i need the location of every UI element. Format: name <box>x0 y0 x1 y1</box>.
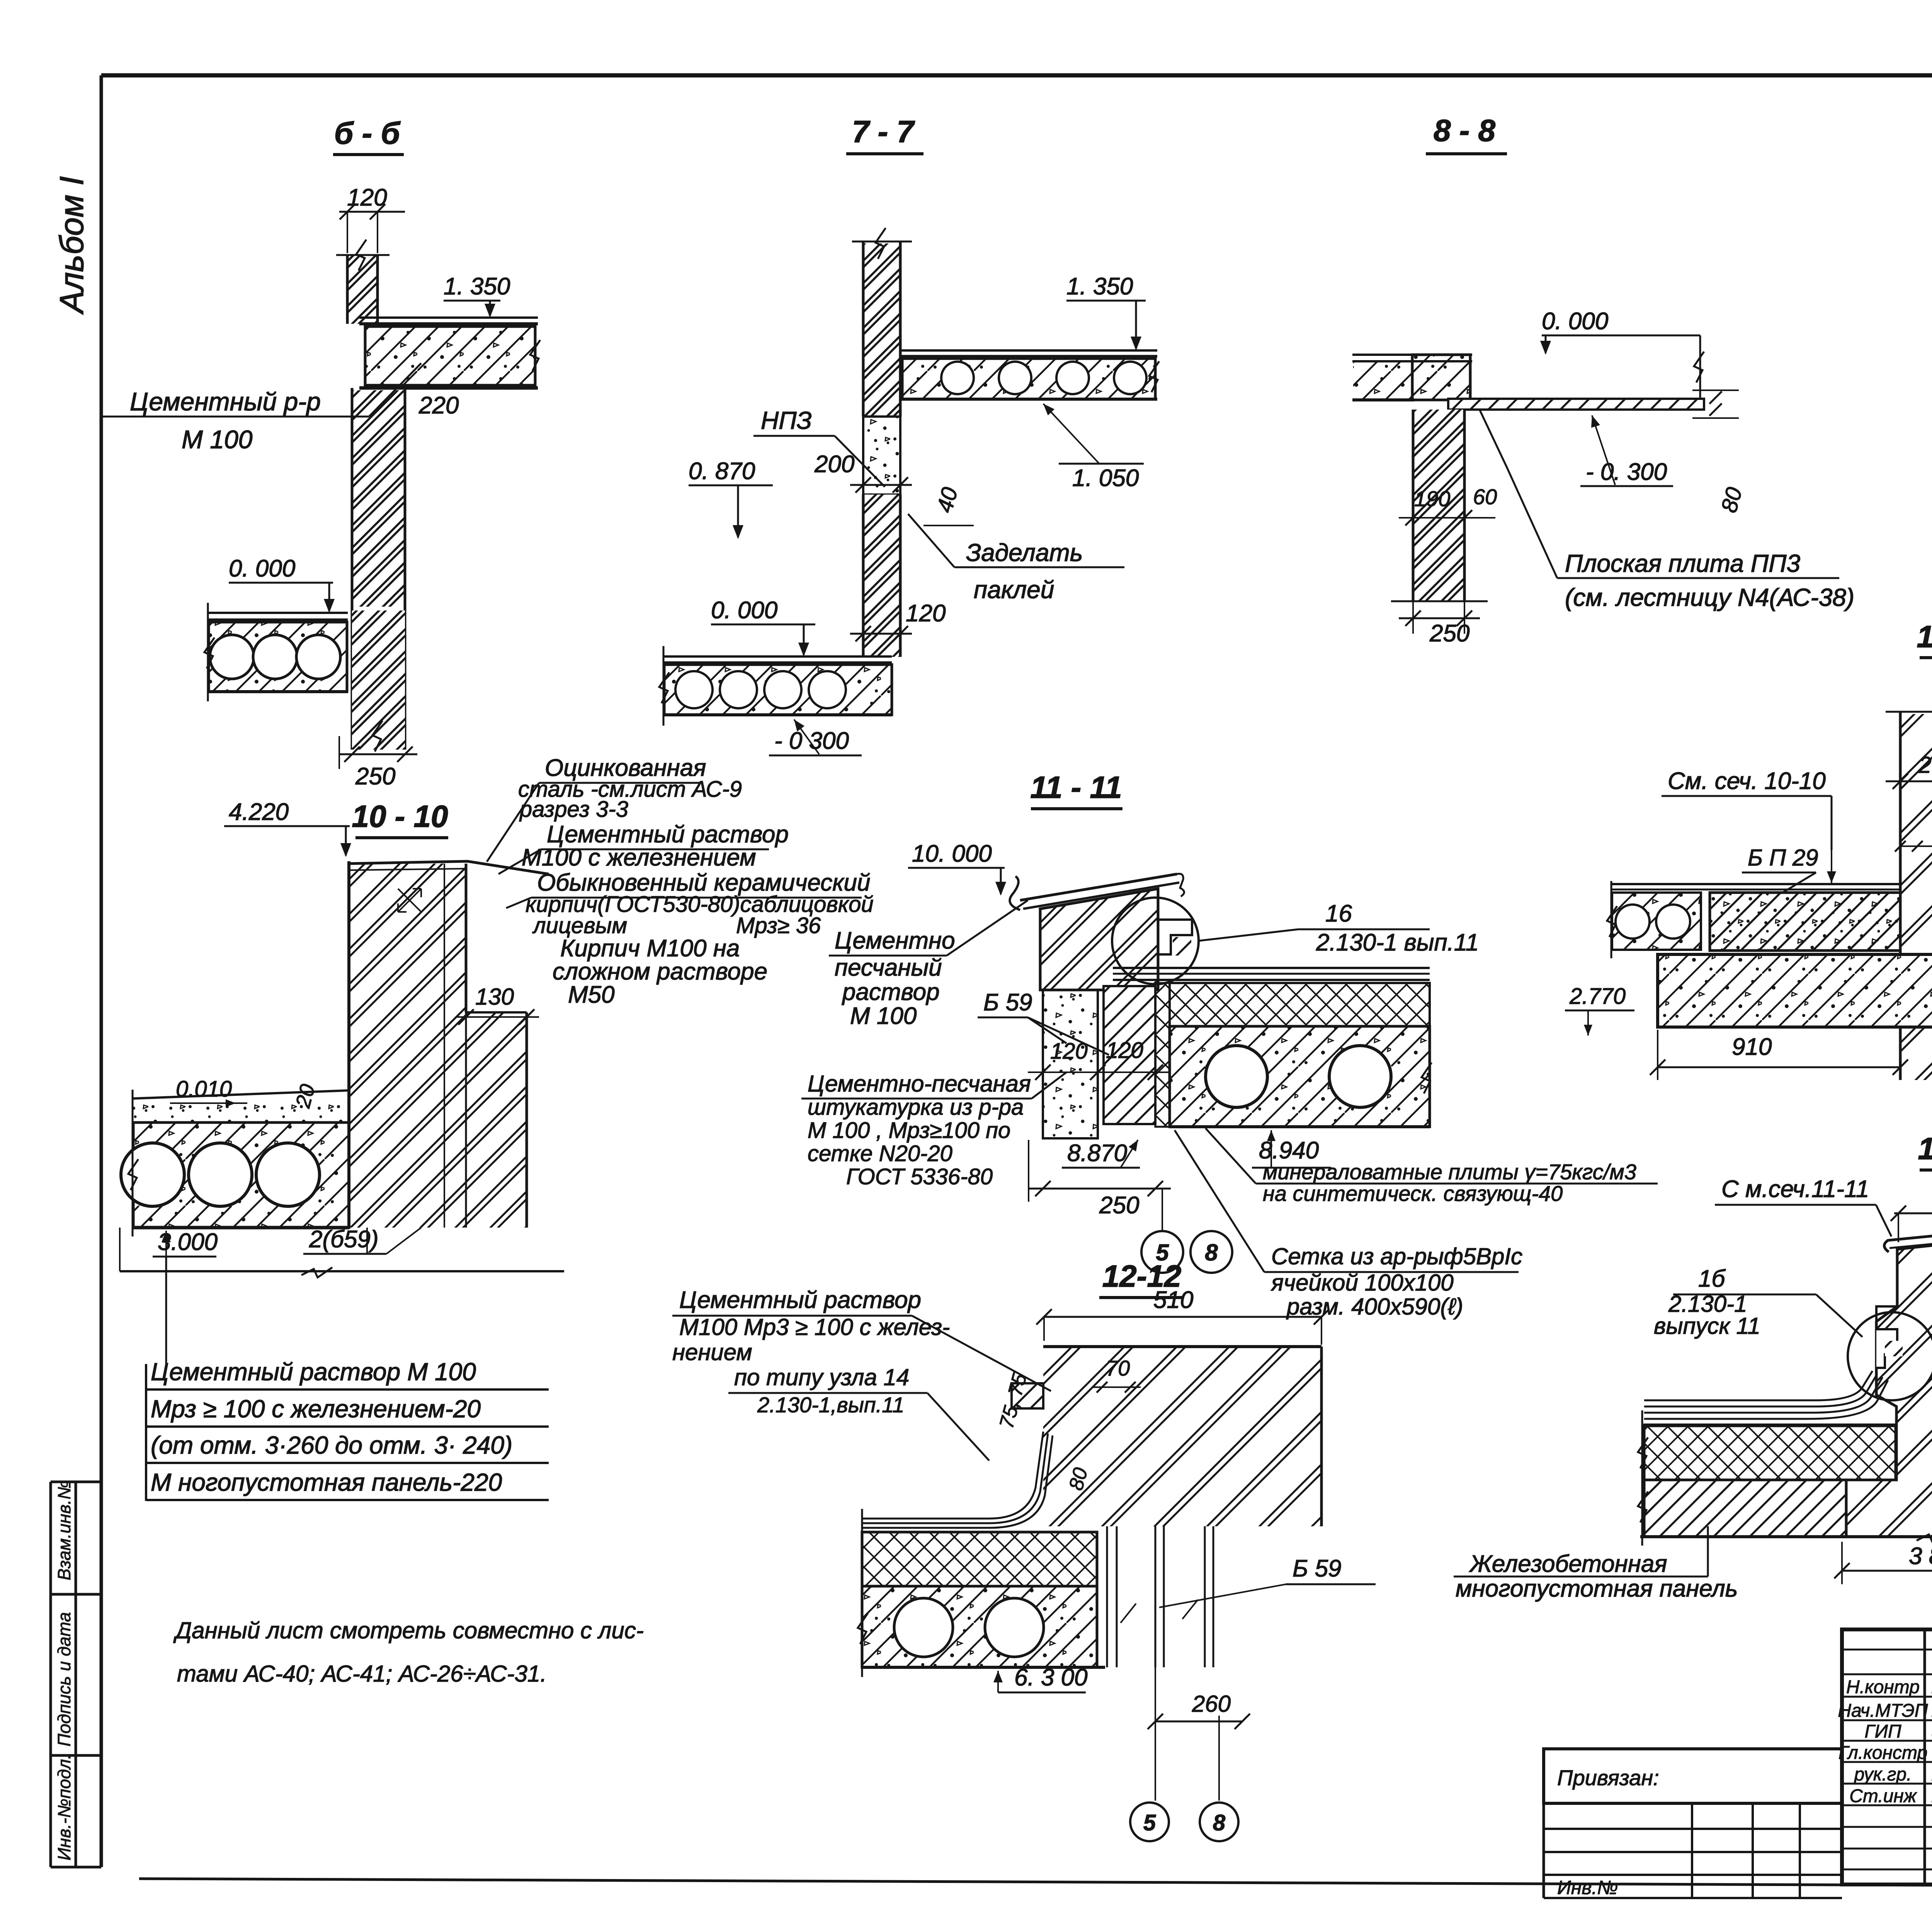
svg-text:тами АС-40; АС-41; АС-26÷АС-3: тами АС-40; АС-41; АС-26÷АС-31. <box>177 1661 547 1687</box>
svg-text:М100 Мр3 ≥ 100 с желез-: М100 Мр3 ≥ 100 с желез- <box>679 1314 950 1340</box>
svg-text:НПЗ: НПЗ <box>761 406 812 434</box>
10-10 slab <box>133 1122 349 1228</box>
svg-text:ГОСТ 5336-80: ГОСТ 5336-80 <box>846 1164 993 1189</box>
svg-text:Подпись и дата: Подпись и дата <box>54 1612 74 1747</box>
svg-text:паклей: паклей <box>974 576 1054 604</box>
7-7 upper wall <box>863 243 900 415</box>
6-6 dim 250 <box>339 753 417 755</box>
sheet frame border <box>101 73 1932 78</box>
svg-text:Плоская плита ПП3: Плоская плита ПП3 <box>1565 549 1800 577</box>
14-14 roof top line <box>1611 883 1900 885</box>
svg-text:130: 130 <box>475 984 514 1010</box>
svg-text:8: 8 <box>1205 1240 1218 1265</box>
12-12 felt layers <box>862 1432 1043 1519</box>
12-12 axis circles 5 8 <box>1130 1803 1169 1841</box>
svg-text:Заделать: Заделать <box>966 539 1083 566</box>
svg-text:0. 000: 0. 000 <box>229 555 295 582</box>
svg-text:7 - 7: 7 - 7 <box>852 114 915 149</box>
svg-text:(см. лестницу N4(АС-38): (см. лестницу N4(АС-38) <box>1565 583 1854 611</box>
svg-text:8: 8 <box>1213 1810 1226 1835</box>
11-11 roof layers right <box>1113 967 1430 969</box>
svg-text:Альбом I: Альбом I <box>53 176 90 315</box>
svg-text:Мрз≥ 36: Мрз≥ 36 <box>736 913 821 938</box>
svg-text:М 100: М 100 <box>850 1003 917 1029</box>
svg-text:Цементный р-р: Цементный р-р <box>130 387 321 416</box>
title block signature table verticals <box>1923 1629 1926 1884</box>
11-11 dim 250 <box>1029 1188 1171 1190</box>
svg-text:минераловатные плиты γ=75кгс/м: минераловатные плиты γ=75кгс/м3 <box>1263 1160 1636 1184</box>
svg-text:1б: 1б <box>1698 1265 1726 1292</box>
svg-text:1б -1б: 1б -1б <box>1918 1131 1932 1166</box>
svg-text:2.770: 2.770 <box>1569 984 1626 1009</box>
svg-text:Гл.констр: Гл.констр <box>1838 1743 1927 1763</box>
svg-text:910: 910 <box>1732 1034 1772 1060</box>
11-11 mid column <box>1104 986 1155 1124</box>
svg-text:Н.контр: Н.контр <box>1846 1677 1920 1697</box>
svg-text:Данный лист смотреть совместн: Данный лист смотреть совместно с лис- <box>173 1617 644 1643</box>
svg-text:10. 000: 10. 000 <box>912 840 992 867</box>
16-16 flashing cap <box>1884 1228 1932 1252</box>
10-10 ground line <box>120 1270 564 1272</box>
svg-text:ячейкой 100х100: ячейкой 100х100 <box>1270 1270 1454 1296</box>
svg-text:многопустотная панель: многопустотная панель <box>1456 1575 1738 1602</box>
14-14 anchor panel <box>1658 954 1932 1027</box>
svg-text:штукатурка из р-ра: штукатурка из р-ра <box>808 1095 1024 1120</box>
svg-text:рук.гр.: рук.гр. <box>1854 1764 1912 1785</box>
privyazan box <box>1544 1749 1842 1803</box>
12-12 parapet wall <box>1043 1347 1321 1526</box>
left margin stamp boxes <box>49 1482 52 1867</box>
16-16 felt layers <box>1644 1371 1872 1400</box>
6-6 lower slab <box>208 612 348 614</box>
svg-text:Цементный раствор: Цементный раствор <box>679 1287 921 1313</box>
svg-text:120: 120 <box>906 600 946 627</box>
svg-text:220: 220 <box>418 392 459 419</box>
10-10 screed slope <box>133 1090 349 1099</box>
svg-text:Б 59: Б 59 <box>1293 1555 1342 1582</box>
svg-text:14 - 14: 14 - 14 <box>1917 619 1932 654</box>
10-10 bottom note table <box>145 1364 147 1501</box>
16-16 dim 380 <box>1842 1570 1932 1572</box>
svg-text:на синтетическ. связующ-40: на синтетическ. связующ-40 <box>1263 1181 1563 1206</box>
svg-text:Цементный раствор М 100: Цементный раствор М 100 <box>151 1358 476 1386</box>
title block outer <box>1842 1629 1932 1884</box>
svg-text:0. 000: 0. 000 <box>711 597 777 624</box>
svg-text:М 100: М 100 <box>182 425 253 454</box>
svg-text:М 100 , Мрз≥100 по: М 100 , Мрз≥100 по <box>808 1118 1010 1143</box>
svg-text:250: 250 <box>1099 1192 1139 1219</box>
svg-text:М100 с железнением: М100 с железнением <box>522 844 756 871</box>
11-11 wall under cap <box>1040 889 1158 990</box>
svg-text:200: 200 <box>814 451 854 478</box>
16-16 step notch <box>1876 1306 1897 1321</box>
6-6 lower wall <box>352 390 405 607</box>
10-10 ledge <box>466 1012 527 1228</box>
16-16 parapet wall <box>1846 1237 1932 1537</box>
svg-text:Железобетонная: Железобетонная <box>1469 1551 1667 1577</box>
svg-text:Нач.МТЭП: Нач.МТЭП <box>1838 1701 1928 1721</box>
svg-text:2.130-1 вып.11: 2.130-1 вып.11 <box>1316 929 1479 956</box>
10-10 anchor arrows in wall <box>398 889 421 912</box>
svg-text:Цементно-песчаная: Цементно-песчаная <box>808 1071 1031 1097</box>
privyazan sub-table <box>1544 1802 1842 1804</box>
7-7 floor slab right <box>900 349 1157 352</box>
svg-text:510: 510 <box>1153 1287 1193 1313</box>
svg-text:Цементный раствор: Цементный раствор <box>547 821 789 848</box>
7-7 lintel NP3 <box>863 417 900 495</box>
svg-text:11 - 11: 11 - 11 <box>1030 770 1122 804</box>
svg-text:1. 350: 1. 350 <box>1066 273 1133 300</box>
11-11 insulation band <box>1170 983 1430 1026</box>
12-12 joint strips <box>1106 1526 1108 1667</box>
6-6 upper wall <box>347 255 378 324</box>
11-11 slab <box>1170 1026 1430 1127</box>
svg-text:Б 59: Б 59 <box>983 989 1032 1016</box>
16-16 roof top line <box>1643 1423 1896 1426</box>
10-10 wall cap screed <box>349 861 549 874</box>
svg-text:Взам.инв.№: Взам.инв.№ <box>54 1480 74 1580</box>
svg-text:сложном растворе: сложном растворе <box>553 958 767 985</box>
10-10 wall <box>349 864 466 1228</box>
svg-text:8 - 8: 8 - 8 <box>1434 113 1496 148</box>
svg-text:10 - 10: 10 - 10 <box>352 799 448 833</box>
svg-text:3 80: 3 80 <box>1909 1543 1932 1570</box>
svg-text:М50: М50 <box>568 981 615 1008</box>
14-14 wall <box>1900 714 1932 1080</box>
14-14 left slab piece <box>1612 893 1701 950</box>
svg-text:60: 60 <box>1473 485 1497 509</box>
svg-text:- 0. 300: - 0. 300 <box>1586 459 1667 485</box>
svg-text:Б П 29: Б П 29 <box>1748 845 1818 871</box>
svg-text:250: 250 <box>355 763 395 790</box>
14-14 dim 910 <box>1658 1066 1900 1068</box>
svg-text:Мрз ≥ 100 с железнением-20: Мрз ≥ 100 с железнением-20 <box>151 1395 481 1423</box>
svg-text:Кирпич М100 на: Кирпич М100 на <box>560 935 740 962</box>
svg-text:16: 16 <box>1325 900 1352 927</box>
14-14 lintel BP29 <box>1710 893 1900 951</box>
svg-text:250: 250 <box>1429 620 1469 647</box>
svg-text:Инв.№: Инв.№ <box>1557 1877 1618 1898</box>
svg-text:лицевым: лицевым <box>532 913 627 938</box>
svg-text:70: 70 <box>1106 1356 1130 1380</box>
7-7 lower wall <box>863 495 900 657</box>
svg-text:120: 120 <box>1106 1038 1143 1063</box>
12-12 top step cap <box>1012 1383 1043 1408</box>
11-11 step detail block <box>1158 920 1192 954</box>
svg-text:Инв.-№подл.: Инв.-№подл. <box>54 1754 74 1861</box>
svg-text:1. 050: 1. 050 <box>1072 465 1139 492</box>
8-8 dim 250 <box>1399 617 1480 619</box>
svg-text:сетке N20-20: сетке N20-20 <box>808 1141 952 1166</box>
svg-text:С м.сеч.11-11: С м.сеч.11-11 <box>1721 1176 1869 1202</box>
svg-text:- 0 300: - 0 300 <box>774 728 849 754</box>
8-8 thin plate PP3 <box>1448 399 1704 410</box>
svg-text:(от отм. 3·260 до отм. 3· 240: (от отм. 3·260 до отм. 3· 240) <box>151 1431 512 1459</box>
12-12 insulation band <box>862 1532 1097 1586</box>
svg-text:5: 5 <box>1143 1810 1156 1835</box>
svg-text:4.220: 4.220 <box>229 799 289 825</box>
svg-text:190: 190 <box>1414 486 1450 511</box>
svg-text:6. 3 00: 6. 3 00 <box>1014 1664 1088 1691</box>
svg-text:Ст.инж: Ст.инж <box>1849 1786 1917 1806</box>
8-8 left slab <box>1352 354 1472 356</box>
svg-text:нением: нением <box>672 1339 752 1365</box>
svg-text:разрез 3-3: разрез 3-3 <box>519 797 628 822</box>
11-11 left column <box>1043 990 1098 1138</box>
title block signature rows <box>1842 1649 1932 1651</box>
svg-text:раствор: раствор <box>842 979 940 1005</box>
svg-text:0. 870: 0. 870 <box>689 458 755 485</box>
16-16 insulation band <box>1644 1426 1896 1480</box>
svg-text:М ногопустотная панель-220: М ногопустотная панель-220 <box>151 1468 502 1496</box>
svg-text:ГИП: ГИП <box>1864 1721 1901 1742</box>
11-11 detail circle 16 <box>1112 898 1199 984</box>
svg-text:песчаный: песчаный <box>835 954 942 981</box>
11-11 axis circles 5 8 <box>1162 1189 1163 1231</box>
11-11 eaves cornice <box>1010 876 1020 910</box>
svg-text:б - б: б - б <box>334 116 401 150</box>
6-6 floor slab <box>359 316 538 319</box>
16-16 detail circle <box>1848 1312 1932 1400</box>
svg-text:См. сеч. 10-10: См. сеч. 10-10 <box>1668 768 1826 794</box>
svg-text:Сетка из ар-рыф5ВрIс: Сетка из ар-рыф5ВрIс <box>1271 1243 1522 1269</box>
svg-text:260: 260 <box>1192 1691 1231 1717</box>
svg-text:2(б59): 2(б59) <box>309 1226 379 1253</box>
svg-text:выпуск 11: выпуск 11 <box>1654 1313 1760 1339</box>
svg-text:Цементно: Цементно <box>835 927 955 954</box>
svg-text:260: 260 <box>1918 752 1932 778</box>
svg-text:разм. 400х590(ℓ): разм. 400х590(ℓ) <box>1286 1294 1463 1320</box>
16-16 slab band <box>1644 1480 1846 1537</box>
12-12 slab <box>862 1586 1097 1667</box>
8-8 step block <box>1412 355 1470 400</box>
svg-text:1. 350: 1. 350 <box>444 273 510 300</box>
12-12 dim 260 and axes <box>1155 1667 1156 1801</box>
svg-text:0.010: 0.010 <box>176 1077 232 1102</box>
svg-text:0. 000: 0. 000 <box>1542 308 1608 335</box>
10-10 leader to note table <box>165 1257 167 1370</box>
svg-text:Привязан:: Привязан: <box>1557 1765 1659 1790</box>
svg-text:8.870: 8.870 <box>1067 1140 1127 1167</box>
6-6 wall below continues <box>351 611 354 750</box>
svg-text:по типу узла 14: по типу узла 14 <box>734 1364 909 1390</box>
svg-text:2.130-1,вып.11: 2.130-1,вып.11 <box>757 1393 904 1417</box>
7-7 lower slab <box>663 655 892 658</box>
8-8 wall below <box>1413 410 1464 601</box>
11-11 vertical insulation strip <box>1155 983 1170 1127</box>
